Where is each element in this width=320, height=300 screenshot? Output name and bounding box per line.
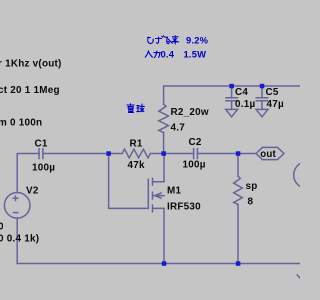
svg-text:9.2%: 9.2% [186, 35, 209, 46]
wire V2 bottom [16, 218, 18, 263]
wire V2 top to C1 [17, 154, 39, 193]
node A junction [106, 151, 111, 156]
node C5 junction [260, 84, 265, 89]
ground V1 partial bottom right [297, 275, 301, 279]
resistor R1 zigzag [109, 149, 164, 158]
wire source to bottom rail [163, 208, 165, 263]
node sp-ground junction [236, 261, 241, 266]
svg-text:R1: R1 [130, 139, 143, 150]
svg-text:47µ: 47µ [267, 99, 284, 110]
wire node B to C2 [164, 153, 194, 155]
ground below C4 [226, 109, 238, 116]
svg-text:47k: 47k [128, 160, 145, 171]
svg-text:sp: sp [246, 181, 258, 192]
voltage source V2 circle [4, 193, 30, 219]
out flag shape [256, 147, 284, 159]
node B junction [161, 151, 166, 156]
V2 minus sign [13, 212, 17, 214]
svg-text:4.7: 4.7 [171, 123, 186, 134]
nmos M1 body stub with arrow [153, 192, 165, 199]
wire bottom rail [17, 263, 300, 265]
capacitor C2 plates [194, 149, 198, 159]
svg-text:8: 8 [248, 197, 254, 208]
wire C4 lead [231, 86, 233, 98]
wire node B vertical to R2 [163, 133, 165, 154]
svg-text:C4: C4 [235, 87, 248, 98]
wire node A to gate [109, 154, 149, 209]
comment hi (CJK) [148, 37, 154, 43]
svg-text:0: 0 [0, 222, 4, 233]
comment mi (CJK) [165, 37, 172, 43]
comment kyuu (CJK) [137, 104, 145, 112]
ground below C5 [256, 109, 268, 116]
svg-text:100µ: 100µ [183, 160, 206, 171]
wire top rail [164, 86, 300, 104]
wire node B to drain [163, 154, 165, 182]
svg-text:100µ: 100µ [32, 162, 55, 173]
svg-text:out: out [260, 149, 276, 160]
nmos M1 drain stub [153, 178, 165, 185]
wire C5 lead [261, 86, 263, 98]
capacitor C1 plates [39, 149, 43, 159]
svg-text:0.4: 0.4 [161, 49, 175, 60]
V2 plus sign [13, 196, 17, 200]
wire out node down to sp [237, 154, 239, 177]
capacitor C5 plates [256, 98, 267, 101]
svg-text:C1: C1 [35, 139, 48, 150]
wire sp to bottom rail [237, 205, 239, 264]
svg-text:ct 20 1 1Meg: ct 20 1 1Meg [0, 85, 60, 96]
svg-text:IRF530: IRF530 [167, 202, 201, 213]
svg-text:1.5W: 1.5W [184, 49, 207, 60]
svg-text:0 0.4 1k): 0 0.4 1k) [0, 233, 39, 244]
svg-text:m 0 100n: m 0 100n [0, 118, 42, 129]
resistor sp zigzag [234, 176, 243, 205]
comment ritsu (CJK) [172, 36, 179, 44]
node source-ground junction [162, 261, 167, 266]
resistor R2 zigzag [159, 104, 169, 133]
voltage source V1 partial circle right edge [294, 162, 320, 189]
node out junction [236, 151, 241, 156]
comment chikara (CJK) [154, 51, 161, 58]
nmos M1 source stub [153, 205, 165, 212]
wire C5 to ground [261, 101, 263, 110]
svg-text:0.1µ: 0.1µ [235, 99, 255, 110]
wire C4 to ground [231, 101, 233, 110]
node C4 junction [229, 84, 234, 89]
comment den (CJK) [127, 104, 134, 113]
svg-text:C5: C5 [266, 87, 279, 98]
svg-text:R2_20w: R2_20w [171, 107, 209, 118]
nmos M1 gate bar [147, 179, 149, 208]
comment zu (CJK) [156, 36, 165, 44]
svg-text:M1: M1 [167, 186, 181, 197]
comment nyuu (CJK) [145, 51, 152, 57]
wire C1 to node A [43, 153, 109, 155]
capacitor C4 plates [226, 98, 237, 101]
svg-text:C2: C2 [189, 137, 202, 148]
svg-text:r 1Khz v(out): r 1Khz v(out) [0, 59, 62, 70]
wire C2 to out node [197, 153, 256, 155]
svg-text:V2: V2 [26, 186, 39, 197]
